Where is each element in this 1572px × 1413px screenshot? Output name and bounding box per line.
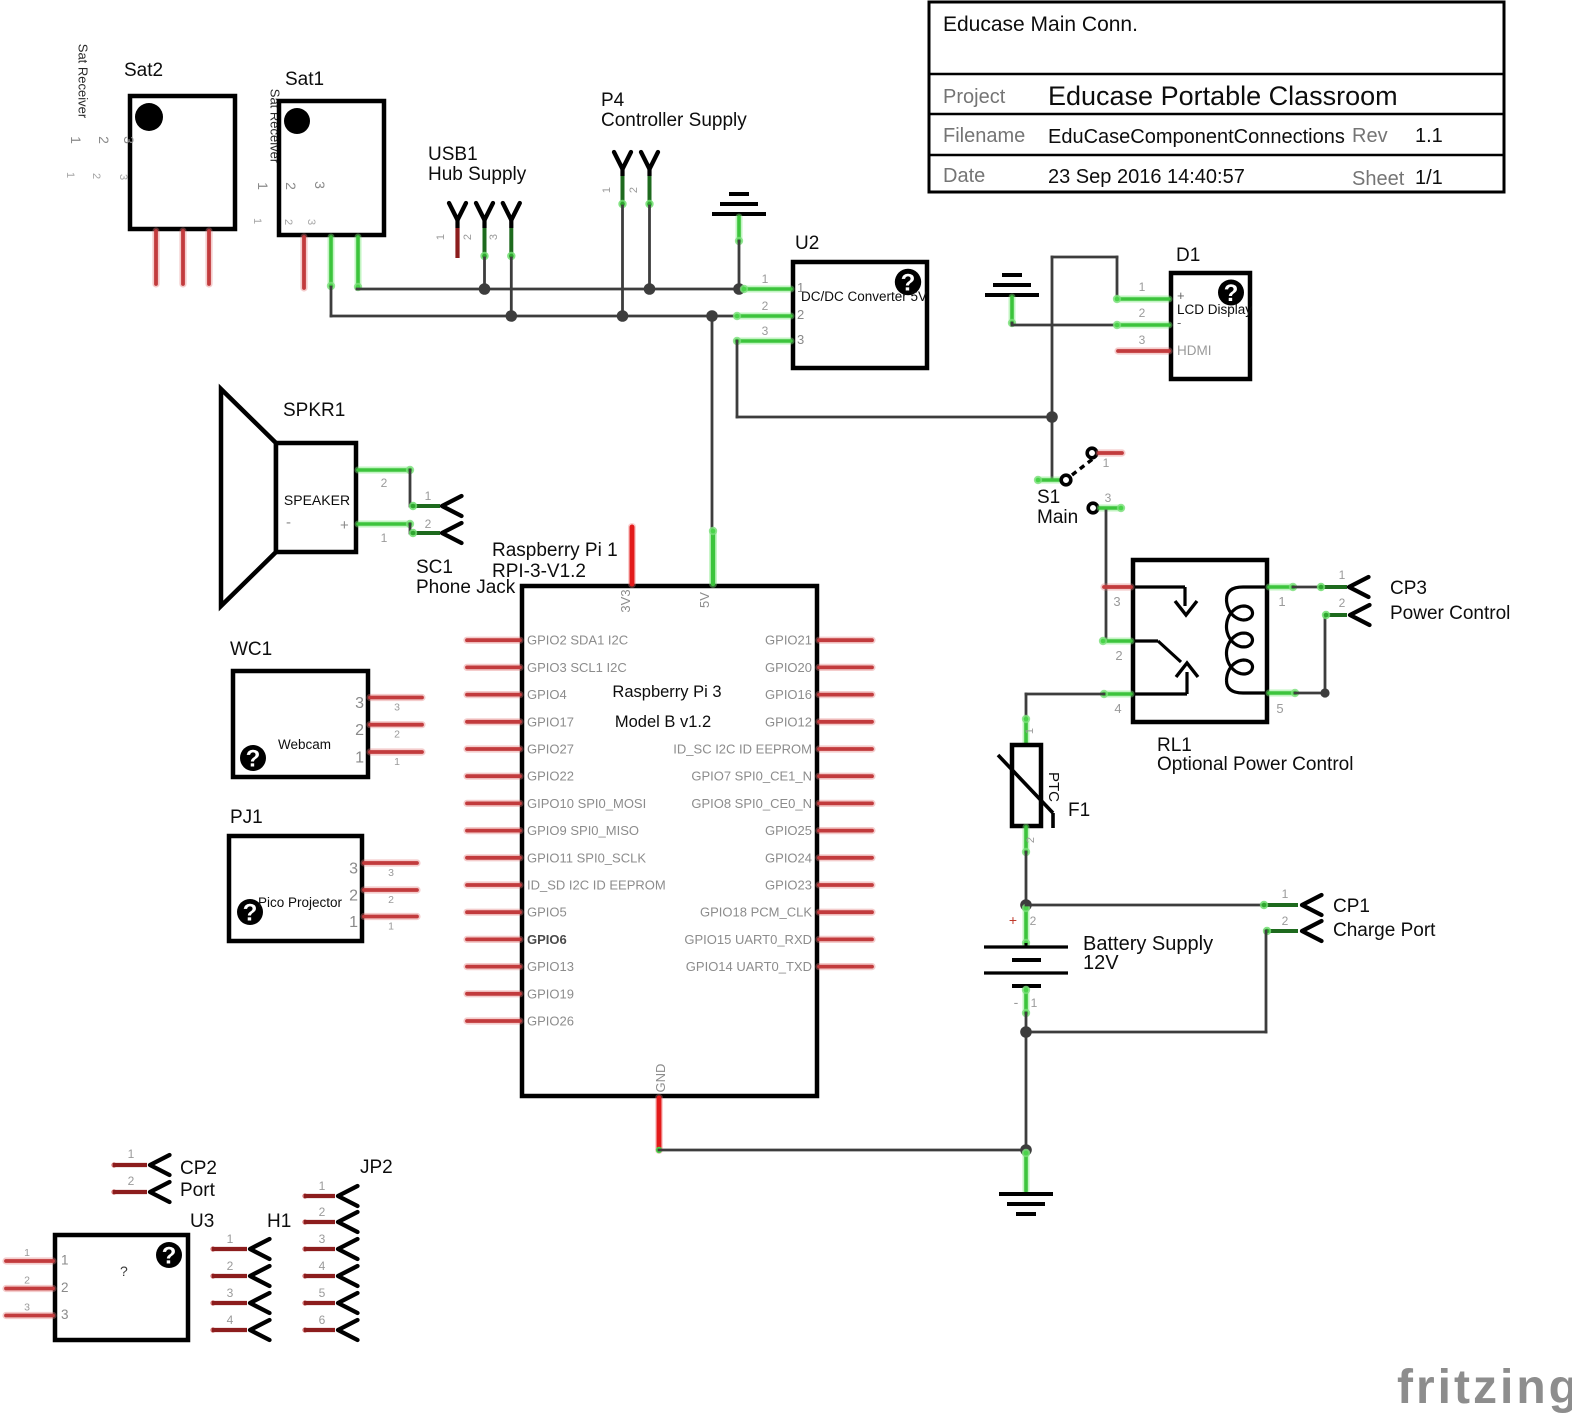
svg-text:2: 2: [319, 1205, 326, 1219]
svg-text:1: 1: [425, 489, 432, 503]
wire RL1 pin5 to CP3 pin2: [1295, 692, 1325, 695]
svg-text:GND: GND: [653, 1064, 668, 1093]
switch S1 Main: [1034, 448, 1125, 528]
svg-text:Hub Supply: Hub Supply: [428, 164, 527, 185]
RPi left pin GIPO10 SPI0_MOSI: [467, 800, 520, 807]
svg-text:Sat2: Sat2: [124, 60, 163, 81]
D1 pin 2: [1117, 322, 1169, 329]
svg-text:-: -: [1014, 994, 1019, 1010]
svg-text:USB1: USB1: [428, 144, 478, 165]
U2 pin 3: [737, 338, 791, 345]
junction: [733, 283, 745, 295]
svg-text:1: 1: [24, 1247, 30, 1259]
svg-text:4: 4: [1114, 701, 1121, 716]
svg-text:2: 2: [90, 173, 102, 179]
svg-text:1: 1: [1282, 887, 1289, 901]
svg-text:SC1: SC1: [416, 557, 453, 578]
RPi right pin GPIO12: [819, 718, 872, 725]
svg-text:GPIO22: GPIO22: [527, 769, 574, 784]
wire P4 pin1 down: [621, 206, 624, 316]
svg-text:2: 2: [1339, 596, 1346, 610]
svg-text:GPIO5: GPIO5: [527, 905, 567, 920]
svg-text:3: 3: [762, 324, 769, 338]
wire battery - to CP1 pin2: [1026, 1031, 1266, 1034]
RL1 pin 5: [1269, 690, 1295, 697]
S1 pin 2 (common): [1038, 477, 1060, 484]
U2 pin 2: [737, 313, 791, 320]
svg-text:2: 2: [227, 1259, 234, 1273]
U3 pin 1: [6, 1257, 53, 1264]
USB1 pin 3: [503, 203, 520, 220]
wire U2 pin3 down and right: [736, 341, 739, 417]
svg-text:GPIO2 SDA1 I2C: GPIO2 SDA1 I2C: [527, 633, 628, 648]
svg-text:5: 5: [1276, 701, 1283, 716]
jumper JP2: [302, 1157, 392, 1340]
svg-text:1: 1: [381, 531, 388, 545]
wire battery - down: [1025, 1013, 1028, 1032]
RPi left pin GPIO13: [467, 963, 520, 970]
Sat1 pin 3: [355, 237, 362, 287]
svg-text:3: 3: [1139, 333, 1146, 347]
svg-text:12V: 12V: [1083, 952, 1119, 974]
svg-text:2: 2: [1282, 914, 1289, 928]
svg-text:?: ?: [246, 746, 261, 773]
junction: [617, 310, 629, 322]
ground (main): [999, 1149, 1053, 1214]
svg-text:U3: U3: [190, 1211, 214, 1232]
svg-text:3: 3: [117, 174, 129, 180]
RL1 pin 3: [1104, 583, 1131, 590]
CP2 pin 1: [111, 1162, 116, 1167]
wire SPKR1 pin1 to SC1 pin2: [409, 524, 412, 533]
svg-text:+: +: [1177, 288, 1185, 303]
svg-text:D1: D1: [1176, 245, 1200, 266]
svg-text:SPKR1: SPKR1: [283, 400, 345, 421]
battery BT1 12V: [984, 904, 1213, 1017]
RPi left pin GPIO17: [467, 718, 520, 725]
svg-text:2: 2: [1115, 648, 1122, 663]
RPi GND pin: [655, 1098, 663, 1150]
svg-text:+: +: [340, 517, 349, 534]
RPi right pin GPIO14 UART0_TXD: [819, 963, 872, 970]
sat receiver Sat1: [251, 69, 384, 291]
WC1 pin 3: [370, 694, 422, 701]
RPi right pin GPIO8 SPI0_CE0_N: [819, 800, 872, 807]
JP2 pin 1: [302, 1193, 307, 1198]
svg-text:GPIO14 UART0_TXD: GPIO14 UART0_TXD: [686, 959, 812, 974]
junction: [479, 283, 491, 295]
svg-text:GPIO13: GPIO13: [527, 959, 574, 974]
svg-text:1: 1: [355, 750, 364, 767]
PJ1 pin 1: [364, 913, 417, 920]
junction: [506, 310, 518, 322]
title block: [929, 2, 1504, 192]
RPi left pin GPIO6: [467, 936, 520, 943]
svg-text:Sat1: Sat1: [285, 69, 324, 90]
svg-text:1: 1: [251, 218, 263, 224]
svg-text:GPIO21: GPIO21: [765, 633, 812, 648]
connector SC1 Phone Jack: [409, 489, 516, 598]
svg-text:Raspberry Pi 1: Raspberry Pi 1: [492, 540, 618, 561]
wire USB1 pin2 down: [483, 258, 486, 289]
svg-text:CP2: CP2: [180, 1158, 217, 1179]
svg-text:1/1: 1/1: [1415, 167, 1443, 189]
wire row A (5V rail): [357, 288, 744, 291]
svg-text:HDMI: HDMI: [1177, 343, 1212, 358]
JP2 pin 5: [302, 1300, 307, 1305]
svg-text:2: 2: [61, 1280, 69, 1295]
svg-text:GPIO25: GPIO25: [765, 823, 812, 838]
svg-text:2: 2: [388, 894, 394, 906]
svg-text:3: 3: [312, 181, 328, 189]
module WC1 Webcam: [230, 639, 422, 777]
svg-text:ID_SD I2C ID EEPROM: ID_SD I2C ID EEPROM: [527, 878, 666, 893]
RL1 pin 2: [1103, 638, 1131, 645]
svg-text:S1: S1: [1037, 487, 1060, 508]
svg-text:CP3: CP3: [1390, 578, 1427, 599]
svg-text:U2: U2: [795, 233, 819, 254]
svg-text:GPIO3 SCL1 I2C: GPIO3 SCL1 I2C: [527, 660, 627, 675]
WC1 pin 2: [370, 721, 422, 728]
svg-text:1: 1: [349, 914, 358, 931]
svg-text:GIPO10 SPI0_MOSI: GIPO10 SPI0_MOSI: [527, 796, 646, 811]
RPi left pin GPIO5: [467, 909, 520, 916]
svg-text:Rev: Rev: [1352, 125, 1388, 147]
RPi left pin GPIO4: [467, 691, 520, 698]
RPi right pin GPIO16: [819, 691, 872, 698]
svg-text:1: 1: [1024, 728, 1036, 734]
RPi 3V3 pin: [628, 527, 636, 584]
svg-text:GPIO20: GPIO20: [765, 660, 812, 675]
relay RL1 Optional Power Control: [1099, 560, 1354, 775]
wire ground to D1 pin2: [1011, 323, 1014, 325]
svg-text:GPIO16: GPIO16: [765, 687, 812, 702]
USB1 pin 2: [476, 203, 493, 220]
wire RPi GND to ground net: [659, 1149, 1026, 1152]
svg-text:PTC: PTC: [1045, 772, 1062, 802]
svg-text:-: -: [1177, 315, 1181, 330]
RPi left pin GPIO19: [467, 990, 520, 997]
svg-text:-: -: [286, 514, 291, 531]
svg-text:1: 1: [1139, 280, 1146, 294]
Sat1 pin 2: [328, 237, 335, 286]
svg-text:2: 2: [394, 729, 400, 741]
RL1 pin 4: [1104, 691, 1131, 698]
connector USB1 Hub Supply: [428, 144, 527, 260]
svg-text:3: 3: [394, 702, 400, 714]
svg-text:?: ?: [243, 900, 258, 927]
fuse F1 PTC: [998, 715, 1090, 856]
svg-text:2: 2: [282, 219, 294, 225]
connector P4 Controller Supply: [601, 90, 747, 208]
H1 pin 1: [210, 1246, 215, 1251]
Sat2 pin 2: [179, 231, 186, 284]
svg-text:3: 3: [305, 219, 317, 225]
USB1 pin 1: [449, 203, 466, 220]
S1 pin 3: [1088, 503, 1098, 513]
svg-text:Filename: Filename: [943, 125, 1025, 147]
svg-text:GPIO17: GPIO17: [527, 714, 574, 729]
speaker SPKR1: [221, 389, 414, 606]
svg-text:1.1: 1.1: [1415, 125, 1443, 147]
svg-text:5V: 5V: [697, 592, 712, 608]
svg-text:3: 3: [355, 695, 364, 712]
svg-text:Model B v1.2: Model B v1.2: [615, 713, 711, 731]
RPi left pin GPIO11 SPI0_SCLK: [467, 854, 520, 861]
wire RL1 pin1 to CP3 pin1: [1293, 586, 1320, 589]
Sat2 pin 3: [205, 231, 212, 284]
CP1 pin 1: [1263, 903, 1298, 907]
P4 pin 2: [641, 152, 658, 169]
wire ground to row A: [738, 241, 741, 289]
svg-text:3: 3: [1105, 491, 1112, 505]
svg-text:23 Sep 2016 14:40:57: 23 Sep 2016 14:40:57: [1048, 166, 1245, 188]
H1 pin 4: [210, 1327, 215, 1332]
svg-text:2: 2: [425, 517, 432, 531]
S1 blade (dashed): [1072, 458, 1094, 475]
svg-text:1: 1: [388, 921, 394, 933]
H1 pin 2: [210, 1273, 215, 1278]
svg-text:1: 1: [1278, 594, 1285, 609]
svg-text:3: 3: [1113, 594, 1120, 609]
wire RL1 pin4 to F1 pin1: [1026, 693, 1104, 696]
SPKR1 pin 2: [358, 467, 410, 474]
svg-text:3: 3: [319, 1232, 326, 1246]
svg-text:4: 4: [227, 1313, 234, 1327]
svg-text:WC1: WC1: [230, 639, 272, 660]
wire row B to RPi 5V: [711, 316, 714, 531]
RL1 coil: [1227, 587, 1267, 600]
IC U3 (unknown): [6, 1211, 214, 1340]
svg-text:Educase Portable Classroom: Educase Portable Classroom: [1048, 81, 1398, 111]
ground (display): [985, 275, 1039, 327]
svg-text:Main: Main: [1037, 507, 1078, 528]
wire SPKR1 pin2 to SC1 pin1: [409, 470, 412, 506]
svg-text:3: 3: [349, 861, 358, 878]
svg-text:ID_SC I2C ID EEPROM: ID_SC I2C ID EEPROM: [673, 742, 812, 757]
ground (supply rail): [712, 194, 766, 245]
svg-text:Controller Supply: Controller Supply: [601, 110, 747, 131]
svg-text:GPIO18 PCM_CLK: GPIO18 PCM_CLK: [700, 905, 812, 920]
RL1 pin 1: [1269, 584, 1293, 591]
svg-text:1: 1: [64, 172, 76, 178]
svg-text:Optional Power Control: Optional Power Control: [1157, 754, 1353, 775]
wire S1 pin3 to RL1 pin2: [1105, 511, 1108, 641]
svg-text:EduCaseComponentConnections: EduCaseComponentConnections: [1048, 126, 1345, 148]
svg-text:Raspberry Pi 3: Raspberry Pi 3: [612, 683, 721, 701]
junction: [1020, 899, 1032, 911]
JP2 pin 3: [302, 1246, 307, 1251]
D1 pin 3 (HDMI): [1118, 347, 1169, 354]
D1 pin 1: [1117, 296, 1169, 303]
svg-text:3: 3: [121, 136, 137, 144]
RPi left pin GPIO27: [467, 745, 520, 752]
svg-text:2: 2: [628, 187, 640, 193]
svg-text:1: 1: [319, 1179, 326, 1193]
header H1: [210, 1211, 291, 1340]
RPi left pin GPIO2 SDA1 I2C: [467, 637, 520, 644]
display D1 LCD: [1113, 245, 1252, 379]
svg-text:3: 3: [227, 1286, 234, 1300]
svg-text:GPIO11 SPI0_SCLK: GPIO11 SPI0_SCLK: [527, 850, 646, 865]
svg-text:1: 1: [61, 1253, 69, 1268]
JP2 pin 4: [302, 1273, 307, 1278]
svg-text:?: ?: [162, 1243, 177, 1270]
RPi left pin GPIO3 SCL1 I2C: [467, 664, 520, 671]
CP3 pin 1: [1320, 585, 1347, 589]
svg-text:Sheet: Sheet: [1352, 168, 1405, 190]
WC1 pin 1: [370, 748, 422, 755]
junction: [706, 310, 718, 322]
PJ1 pin 3: [364, 859, 417, 866]
svg-text:2: 2: [355, 722, 364, 739]
RPi left pin GPIO22: [467, 773, 520, 780]
svg-text:3: 3: [388, 867, 394, 879]
RPi right pin GPIO24: [819, 854, 872, 861]
svg-text:2: 2: [96, 136, 112, 144]
svg-text:2: 2: [128, 1174, 135, 1188]
RPi right pin GPIO25: [819, 827, 872, 834]
U3 pin 2: [6, 1285, 53, 1292]
svg-text:H1: H1: [267, 1211, 291, 1232]
wire F1 pin2 to battery +: [1025, 852, 1028, 905]
IC U2 DC/DC Converter 5V: [733, 233, 927, 368]
svg-text:5: 5: [319, 1286, 326, 1300]
svg-text:GPIO27: GPIO27: [527, 742, 574, 757]
wire P4 pin2 down: [648, 206, 651, 289]
wire Sat1 pin2 down: [330, 287, 333, 316]
svg-text:GPIO6: GPIO6: [527, 932, 567, 947]
U3 pin 3: [6, 1312, 53, 1319]
svg-text:Port: Port: [180, 1180, 216, 1201]
svg-text:GPIO19: GPIO19: [527, 986, 574, 1001]
svg-text:2: 2: [349, 888, 358, 905]
svg-text:1: 1: [601, 187, 613, 193]
wire battery - to ground: [1025, 1032, 1028, 1150]
svg-text:1: 1: [797, 280, 804, 295]
P4 pin 1: [614, 152, 631, 169]
CP2 pin 2: [111, 1189, 116, 1194]
svg-text:GPIO12: GPIO12: [765, 714, 812, 729]
svg-text:2: 2: [1030, 914, 1037, 928]
svg-text:1: 1: [255, 182, 271, 190]
svg-text:F1: F1: [1068, 800, 1090, 821]
svg-text:GPIO26: GPIO26: [527, 1014, 574, 1029]
sat receiver Sat2: [64, 44, 235, 284]
RL1 contact arrows and blade: [1135, 585, 1185, 588]
svg-text:2: 2: [797, 307, 804, 322]
svg-text:Date: Date: [943, 165, 985, 187]
wire D1 net top: [1051, 257, 1054, 417]
U2 pin 1: [744, 286, 791, 293]
svg-text:1: 1: [435, 234, 447, 240]
svg-text:1: 1: [68, 136, 84, 144]
svg-text:2: 2: [462, 234, 474, 240]
svg-text:GPIO23: GPIO23: [765, 878, 812, 893]
svg-text:1: 1: [128, 1147, 135, 1161]
svg-text:GPIO9 SPI0_MISO: GPIO9 SPI0_MISO: [527, 823, 639, 838]
svg-text:1: 1: [762, 272, 769, 286]
PJ1 pin 2: [364, 886, 417, 893]
svg-text:GPIO4: GPIO4: [527, 687, 567, 702]
module PJ1 Pico Projector: [229, 807, 417, 941]
svg-text:Webcam: Webcam: [278, 737, 331, 752]
svg-text:?: ?: [120, 1263, 128, 1279]
svg-text:2: 2: [1025, 837, 1037, 843]
RPi right pin GPIO7 SPI0_CE1_N: [819, 773, 872, 780]
junction: [1046, 411, 1058, 423]
svg-text:GPIO15 UART0_RXD: GPIO15 UART0_RXD: [684, 932, 812, 947]
svg-text:3: 3: [797, 332, 804, 347]
svg-text:Project: Project: [943, 86, 1006, 108]
junction: [644, 283, 656, 295]
RPi left pin GPIO26: [467, 1017, 520, 1024]
svg-text:PJ1: PJ1: [230, 807, 263, 828]
CP3 pin 2: [1325, 613, 1347, 617]
RPi right pin GPIO20: [819, 664, 872, 671]
RPi right pin GPIO15 UART0_RXD: [819, 936, 872, 943]
SC1 pin 2: [411, 531, 440, 535]
Sat1 pin 1: [300, 237, 307, 288]
JP2 pin 2: [302, 1219, 307, 1224]
SPKR1 pin 1: [358, 521, 410, 528]
Sat2 pin 1: [152, 231, 159, 284]
svg-text:3V3: 3V3: [618, 589, 633, 612]
svg-text:GPIO7 SPI0_CE1_N: GPIO7 SPI0_CE1_N: [691, 769, 812, 784]
svg-text:+: +: [1009, 912, 1017, 928]
svg-text:CP1: CP1: [1333, 896, 1370, 917]
S1 pin 1: [1087, 448, 1097, 458]
svg-text:1: 1: [227, 1232, 234, 1246]
H1 pin 3: [210, 1300, 215, 1305]
svg-text:3: 3: [488, 234, 500, 240]
junction: [1020, 1144, 1032, 1156]
RPi right pin GPIO23: [819, 881, 872, 888]
svg-text:SPEAKER: SPEAKER: [284, 492, 350, 508]
RPi right pin ID_SC I2C ID EEPROM: [819, 745, 872, 752]
svg-text:DC/DC Converter 5V: DC/DC Converter 5V: [801, 289, 927, 304]
wire battery + to CP1 pin1: [1026, 904, 1262, 907]
svg-text:1: 1: [1339, 568, 1346, 582]
connector CP2 Port: [111, 1147, 217, 1202]
svg-text:1: 1: [1103, 456, 1110, 470]
wire D1 net to S1: [1051, 417, 1054, 480]
connector CP3 Power Control: [1317, 568, 1511, 625]
svg-text:2: 2: [381, 476, 388, 490]
svg-text:LCD Display: LCD Display: [1177, 302, 1252, 317]
connector CP1 Charge Port: [1260, 887, 1436, 941]
svg-text:Charge Port: Charge Port: [1333, 920, 1436, 941]
svg-text:GPIO24: GPIO24: [765, 850, 812, 865]
svg-text:P4: P4: [601, 90, 625, 111]
svg-text:3: 3: [61, 1307, 69, 1322]
svg-text:4: 4: [319, 1259, 326, 1273]
RPi right pin GPIO21: [819, 637, 872, 644]
svg-text:2: 2: [762, 299, 769, 313]
RPi right pin GPIO18 PCM_CLK: [819, 909, 872, 916]
RPi left pin GPIO9 SPI0_MISO: [467, 827, 520, 834]
svg-text:1: 1: [394, 756, 400, 768]
wire row B (GND rail): [331, 315, 737, 318]
JP2 pin 6: [302, 1327, 307, 1332]
svg-text:fritzing: fritzing: [1397, 1361, 1572, 1413]
CP1 pin 2: [1266, 929, 1298, 933]
RPi 5V pin: [709, 531, 717, 584]
svg-text:3: 3: [24, 1302, 30, 1314]
svg-text:Pico Projector: Pico Projector: [258, 895, 343, 910]
wire USB1 pin3 down: [510, 258, 513, 316]
svg-text:GPIO8 SPI0_CE0_N: GPIO8 SPI0_CE0_N: [691, 796, 812, 811]
